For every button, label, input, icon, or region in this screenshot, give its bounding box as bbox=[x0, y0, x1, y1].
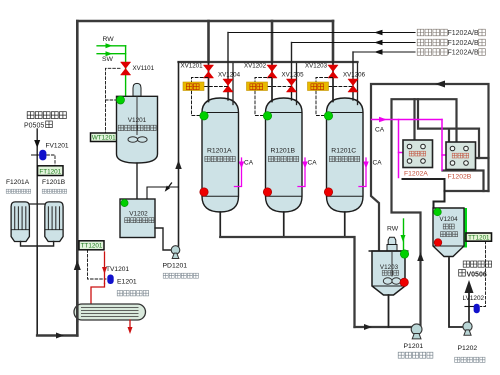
valve FV1201 bbox=[32, 143, 69, 161]
filter F1201A bbox=[11, 202, 29, 242]
wire SW supply bbox=[97, 51, 126, 56]
node level indicator R1201C bbox=[324, 112, 332, 120]
wire steam to E1201 bbox=[91, 284, 105, 305]
wire TT1201 signal dashes bbox=[88, 250, 107, 279]
wire feed drop R1201C bbox=[332, 62, 334, 102]
node level indicator R1201B bbox=[263, 112, 271, 120]
valve XV1205 bbox=[282, 72, 305, 93]
filter-press F1202B bbox=[446, 142, 476, 181]
svg-text:CA: CA bbox=[373, 160, 383, 167]
wire RW to V1203 bbox=[401, 219, 406, 252]
node level indicator V1204 bbox=[434, 208, 442, 216]
agitator motor V1203 bbox=[387, 237, 397, 251]
valve XV1101 bbox=[121, 62, 155, 75]
wire water line to V1201 bbox=[125, 46, 127, 100]
interlock release box R1201B bbox=[247, 82, 268, 91]
svg-text:XV1202: XV1202 bbox=[244, 63, 267, 70]
svg-text:F1202A/B: F1202A/B bbox=[448, 40, 479, 47]
node F1201A label bbox=[6, 179, 30, 186]
node recycle text 2 bbox=[417, 39, 485, 47]
node recycle text 1 bbox=[417, 29, 485, 37]
wire filter inlet tees bbox=[20, 203, 55, 205]
vessel V1203 bbox=[369, 251, 409, 295]
svg-text:XV1204: XV1204 bbox=[218, 72, 241, 79]
wire TT1201 signal dashes bbox=[481, 241, 486, 306]
wire filtrate return loop bbox=[371, 81, 489, 252]
svg-text:PD1201: PD1201 bbox=[163, 263, 188, 270]
svg-text:RW: RW bbox=[387, 226, 399, 233]
svg-text:F1201A: F1201A bbox=[6, 179, 30, 186]
wire outlet R1201B bbox=[283, 212, 285, 237]
wire V1202 outlet to PD1201 bbox=[155, 228, 171, 250]
wire outlet R1201C bbox=[344, 212, 346, 237]
vessel V1202 bbox=[120, 199, 155, 238]
svg-text:CA: CA bbox=[375, 127, 385, 134]
wire feed line from P0505 bbox=[34, 129, 40, 246]
vessel R1201C bbox=[327, 98, 364, 212]
valve XV1204 bbox=[218, 72, 241, 93]
node from-P0505 feed label bbox=[24, 112, 66, 130]
svg-text:P1202: P1202 bbox=[458, 345, 478, 352]
svg-text:V1201: V1201 bbox=[128, 117, 147, 124]
node PD1201 labels bbox=[163, 263, 199, 279]
wire FV1201 signal dash bbox=[47, 155, 55, 166]
node label R1201A bbox=[205, 148, 235, 162]
interlock release box R1201C bbox=[308, 82, 329, 91]
wire drop to R1201A bbox=[207, 21, 210, 62]
pump P1201 bbox=[411, 324, 422, 339]
wire recycle line 2 from F1202 bbox=[292, 40, 416, 46]
wire steam inlet bbox=[102, 252, 107, 284]
wire drop to R1201C bbox=[332, 21, 335, 62]
svg-text:LV1202: LV1202 bbox=[463, 295, 485, 302]
pump P1202 bbox=[463, 322, 472, 335]
wire feed drop F1202B bbox=[448, 129, 450, 142]
valve LV1202 bbox=[463, 295, 485, 313]
wire pan drain to V1204 bbox=[434, 179, 445, 208]
node to-V0506 label bbox=[459, 261, 492, 278]
svg-text:XV1101: XV1101 bbox=[133, 65, 155, 72]
svg-text:RW: RW bbox=[103, 36, 115, 43]
wire feed drop R1201A bbox=[208, 62, 210, 102]
wire bottom run to riser bbox=[37, 333, 77, 339]
node P1202 labels bbox=[455, 345, 485, 362]
instrument TT1201 right bbox=[466, 233, 492, 242]
vessel R1201A bbox=[202, 98, 239, 212]
svg-text:XV1206: XV1206 bbox=[343, 72, 366, 79]
wire outlet R1201A bbox=[219, 212, 221, 237]
wire dome connection R1201A bbox=[232, 64, 234, 105]
node drain indicator V1204 bbox=[434, 239, 442, 247]
wire main riser bbox=[74, 21, 81, 336]
svg-text:V0506: V0506 bbox=[467, 271, 487, 278]
node filter desc text bbox=[6, 189, 66, 193]
wire top header bbox=[77, 20, 333, 23]
wire P1201 discharge riser bbox=[392, 99, 457, 325]
svg-text:F1202A/B: F1202A/B bbox=[448, 50, 479, 57]
wire RW supply bbox=[97, 43, 126, 48]
node drain indicator R1201A bbox=[200, 188, 208, 196]
wire interlock dashes R1201C bbox=[316, 78, 353, 116]
svg-text:F1201B: F1201B bbox=[42, 179, 66, 186]
vessel V1204 bbox=[433, 208, 464, 257]
svg-text:F1202B: F1202B bbox=[448, 174, 472, 181]
wire filter outlet piping bbox=[21, 242, 54, 247]
wire V1202 vent line bbox=[147, 187, 179, 199]
wire CA supply to presses bbox=[372, 117, 447, 178]
wire tee to return loop bbox=[474, 157, 489, 159]
svg-text:V1203: V1203 bbox=[380, 264, 399, 271]
wire V1203 outlet bbox=[388, 295, 390, 327]
instrument WT1201 bbox=[91, 133, 118, 142]
valve XV1206 bbox=[343, 72, 366, 93]
svg-text:CA: CA bbox=[308, 160, 318, 167]
svg-text:R1201C: R1201C bbox=[331, 148, 356, 155]
instrument TT1201 bbox=[79, 241, 104, 250]
svg-text:SW: SW bbox=[102, 56, 114, 63]
wire CA purge R1201A bbox=[235, 158, 254, 187]
wire CA purge R1201C bbox=[359, 158, 382, 187]
wire distribution header bbox=[179, 61, 358, 63]
node level indicator V1203 bbox=[400, 250, 408, 258]
node label R1201B bbox=[268, 148, 298, 162]
agitator motor V1201 bbox=[133, 83, 141, 96]
filter-press F1202A bbox=[403, 140, 433, 178]
svg-text:E1201: E1201 bbox=[117, 279, 137, 286]
wire press B drain pan bbox=[443, 171, 489, 192]
vessel V1201 bbox=[117, 96, 158, 163]
svg-text:TT1201: TT1201 bbox=[468, 235, 490, 242]
wire press A drain pan bbox=[403, 178, 445, 180]
wire reactor collection header bbox=[220, 237, 354, 327]
node level indicator V1202 bbox=[121, 199, 128, 206]
valve XV1203 bbox=[305, 63, 338, 79]
wire feed drop F1202A bbox=[413, 99, 415, 140]
filter F1201B bbox=[45, 202, 63, 242]
wire CA purge R1201B bbox=[298, 158, 317, 187]
svg-text:XV1201: XV1201 bbox=[181, 63, 204, 70]
svg-text:V1204: V1204 bbox=[439, 216, 458, 223]
node P1201 labels bbox=[398, 343, 433, 358]
wire recycle drop R1201A bbox=[227, 33, 229, 101]
node label V1201 bbox=[118, 117, 156, 131]
wire recycle drop R1201C bbox=[352, 52, 354, 100]
heat-exchanger E1201 bbox=[74, 303, 146, 321]
svg-text:XV1203: XV1203 bbox=[305, 63, 328, 70]
wire dome connection R1201C bbox=[357, 64, 359, 105]
wire press crossover B bbox=[418, 99, 479, 158]
wire recycle line 3 from F1202 bbox=[353, 49, 415, 55]
wire line to bottom bbox=[36, 246, 38, 336]
valve XV1202 bbox=[244, 63, 277, 79]
svg-text:XV1205: XV1205 bbox=[282, 72, 305, 79]
wire run to P1201 bbox=[355, 324, 413, 330]
node E1201 label bbox=[117, 279, 149, 296]
wire PD1201 injection riser bbox=[175, 62, 182, 246]
node recycle text 3 bbox=[417, 49, 485, 57]
node RW label bbox=[103, 36, 115, 43]
pump PD1201 bbox=[171, 246, 180, 259]
wire dome connection R1201B bbox=[296, 64, 298, 105]
node level gauge V1204 bbox=[463, 208, 468, 248]
node drain indicator V1203 bbox=[400, 278, 408, 286]
svg-text:CA: CA bbox=[244, 160, 254, 167]
node RW label V1203 bbox=[387, 226, 399, 233]
node label V1203 bbox=[380, 264, 399, 275]
svg-text:P0505: P0505 bbox=[24, 123, 44, 130]
wire XV1101 signal dashes bbox=[106, 68, 121, 133]
wire interlock dashes R1201B bbox=[255, 78, 292, 116]
svg-text:F1202A: F1202A bbox=[404, 171, 428, 178]
interlock release box R1201A bbox=[183, 82, 204, 91]
node drain indicator R1201C bbox=[324, 188, 332, 196]
svg-text:FT1201: FT1201 bbox=[39, 168, 61, 175]
node label R1201C bbox=[329, 148, 359, 162]
wire V1204 outlet to P1202 bbox=[449, 258, 462, 327]
instrument FT1201 bbox=[38, 166, 64, 176]
node label V1204 bbox=[439, 216, 458, 237]
wire feed drop R1201B bbox=[271, 62, 273, 102]
wire V1201 outlet bbox=[136, 163, 138, 199]
svg-text:P1201: P1201 bbox=[404, 343, 424, 350]
wire condensate drain bbox=[128, 320, 133, 334]
svg-text:R1201A: R1201A bbox=[207, 148, 232, 155]
svg-text:V1202: V1202 bbox=[129, 211, 148, 218]
svg-text:TT1201: TT1201 bbox=[81, 243, 103, 250]
wire recycle line 1 from F1202 bbox=[228, 30, 415, 36]
wire P1202 discharge bbox=[465, 280, 474, 322]
valve XV1201 bbox=[181, 63, 214, 79]
node SW label bbox=[102, 56, 114, 63]
node drain indicator R1201B bbox=[263, 188, 271, 196]
node CA supply label bbox=[375, 127, 385, 134]
node level indicator V1201 bbox=[117, 96, 125, 104]
svg-text:TV1201: TV1201 bbox=[106, 266, 129, 273]
valve TV1201 bbox=[106, 266, 129, 284]
wire recycle drop R1201B bbox=[291, 43, 293, 101]
svg-text:F1202A/B: F1202A/B bbox=[448, 30, 479, 37]
node F1201B label bbox=[42, 179, 66, 186]
wire interlock dashes R1201A bbox=[192, 78, 229, 116]
svg-text:R1201B: R1201B bbox=[270, 148, 295, 155]
node label V1202 bbox=[125, 211, 154, 223]
vessel R1201B bbox=[266, 98, 303, 212]
valve manual slash bbox=[165, 183, 172, 192]
svg-text:WT1201: WT1201 bbox=[92, 134, 116, 141]
svg-text:FV1201: FV1201 bbox=[46, 143, 69, 150]
node level indicator R1201A bbox=[200, 112, 208, 120]
wire drop to R1201B bbox=[271, 21, 274, 62]
